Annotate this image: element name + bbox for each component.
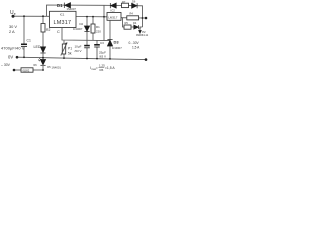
svg-text:LM317: LM317 (108, 15, 118, 19)
svg-text:R4: R4 (130, 12, 134, 16)
svg-text:R6: R6 (34, 64, 38, 67)
svg-text:0...30V: 0...30V (129, 41, 140, 45)
svg-text:– 30V: – 30V (1, 63, 11, 67)
svg-text:IC2: IC2 (111, 9, 116, 13)
svg-text:P2: P2 (142, 30, 146, 34)
svg-text:=: = (96, 66, 98, 70)
svg-text:0Ω82: 0Ω82 (23, 69, 30, 73)
svg-text:R5: R5 (125, 21, 129, 25)
svg-text:/63 V: /63 V (99, 55, 106, 59)
svg-text:220: 220 (96, 29, 101, 33)
svg-text:≈1,5 A: ≈1,5 A (105, 66, 115, 70)
svg-text:D1: D1 (57, 3, 63, 8)
svg-text:P1: P1 (68, 46, 72, 50)
svg-text:/63 V: /63 V (75, 49, 82, 53)
svg-text:1N4007: 1N4007 (67, 7, 77, 11)
svg-text:D4: D4 (133, 21, 137, 25)
svg-text:R1: R1 (96, 25, 100, 29)
svg-text:1,5 A: 1,5 A (132, 46, 140, 50)
svg-text:R2: R2 (46, 28, 50, 32)
svg-text:LED: LED (34, 45, 41, 49)
svg-text:e: e (14, 12, 16, 16)
svg-text:0V: 0V (8, 55, 13, 60)
svg-text:D2: D2 (80, 22, 84, 26)
svg-text:IC1: IC1 (60, 13, 65, 17)
svg-text:2 A: 2 A (9, 29, 15, 34)
svg-text:R6: R6 (100, 68, 104, 72)
svg-text:C: C (57, 29, 60, 34)
svg-text:D6: D6 (132, 0, 136, 4)
svg-text:C3: C3 (100, 41, 104, 45)
svg-text:990064-11: 990064-11 (136, 33, 149, 37)
svg-text:1N4007: 1N4007 (73, 27, 83, 31)
svg-text:10µF: 10µF (75, 44, 82, 48)
svg-text:C1: C1 (27, 39, 31, 43)
svg-text:1N4007: 1N4007 (112, 46, 122, 50)
svg-text:D3: D3 (114, 40, 120, 45)
svg-text:LM317: LM317 (54, 20, 72, 26)
svg-text:5k: 5k (68, 52, 72, 56)
svg-text:1N4001: 1N4001 (52, 66, 62, 70)
svg-text:R7: R7 (122, 0, 126, 4)
svg-text:4700µF/40 V: 4700µF/40 V (1, 45, 25, 50)
